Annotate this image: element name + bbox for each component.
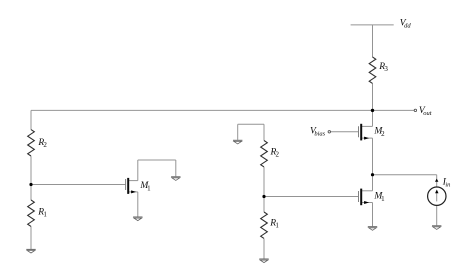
svg-text:M2: M2 — [373, 127, 385, 138]
svg-text:Vbias: Vbias — [310, 126, 326, 137]
svg-text:R1: R1 — [269, 218, 279, 229]
svg-text:R3: R3 — [378, 62, 388, 73]
svg-text:R2: R2 — [37, 138, 47, 149]
svg-text:R1: R1 — [37, 208, 47, 219]
svg-text:R2: R2 — [270, 148, 280, 159]
svg-text:M1: M1 — [139, 181, 151, 192]
svg-text:Vdd: Vdd — [400, 18, 412, 29]
svg-text:M1: M1 — [373, 192, 385, 203]
svg-text:Vout: Vout — [419, 106, 432, 117]
svg-text:Iin: Iin — [442, 177, 451, 188]
